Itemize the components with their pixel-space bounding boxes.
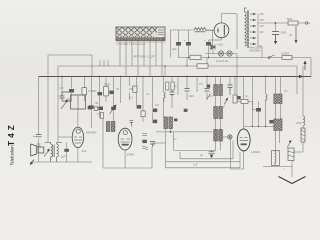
wire: tube2 bottom lead: [124, 150, 126, 168]
resistor top right y57: [281, 52, 292, 60]
capacitor C13 blob: [61, 143, 69, 163]
small ground arrow x296: [288, 26, 298, 44]
resistor R2: [104, 87, 109, 96]
wire: wire y109.5: [252, 102, 256, 110]
wire: hanger x172: [171, 77, 173, 109]
wire: rectifier output y40: [209, 39, 222, 41]
resistor pair x166 x172: [166, 82, 175, 90]
wire: inner return y156.5: [180, 141, 233, 159]
resistor on y66 bus: [197, 64, 208, 68]
Telefunken T4Z label: [7, 125, 16, 166]
wire: top loop y55: [48, 54, 92, 56]
osc coil block left of V2: [106, 122, 115, 132]
wire: heater link verticals: [276, 104, 281, 120]
left chassis arrow: [30, 160, 34, 166]
wire: hanger x120.5: [120, 77, 122, 104]
wire: osc coil feeds: [216, 77, 221, 85]
wire: box1 bottom: [103, 167, 152, 169]
svg-text:220: 220: [260, 13, 265, 16]
wire: anode top y14: [222, 13, 237, 15]
ground arrow C11: [210, 155, 213, 159]
svg-text:~AZ1: ~AZ1: [216, 43, 224, 47]
svg-text:0,5MΩ: 0,5MΩ: [88, 89, 97, 93]
output pentode V3: [237, 129, 250, 151]
svg-text:T 4 Z: T 4 Z: [7, 125, 16, 146]
svg-text:L496D: L496D: [251, 150, 261, 154]
resistor R1: [82, 88, 87, 95]
speaker: [31, 144, 44, 156]
svg-text:+: +: [204, 39, 206, 43]
wire: right column x303: [294, 66, 304, 152]
svg-text:150: 150: [260, 19, 265, 22]
heater block upper pair: [274, 94, 282, 104]
series box x241-248: [241, 100, 248, 104]
pot arrow mid: [110, 105, 117, 115]
wire: tube3 bottom loop: [231, 140, 244, 170]
padding pot arrow: [224, 98, 228, 105]
resistor R15: [233, 95, 237, 103]
pentode V2: [118, 128, 132, 150]
wire: hanger x84.3: [83, 77, 85, 102]
wire: second bus y66: [58, 65, 297, 67]
svg-text:6,3V 0,3A: 6,3V 0,3A: [216, 59, 228, 63]
svg-text:0,2: 0,2: [173, 137, 177, 141]
wire: hanger x197: [196, 77, 198, 93]
cap blob x98: [98, 92, 103, 95]
svg-text:0,1: 0,1: [146, 92, 150, 96]
volume pot arrow left: [61, 100, 68, 110]
wire: hanger x143: [142, 77, 144, 123]
IFT1 block pair: [164, 117, 173, 129]
svg-text:110: 110: [260, 31, 265, 34]
IFT2 block pair: [214, 130, 223, 142]
svg-text:50: 50: [95, 101, 99, 105]
wire: line x38.5 cap leads: [33, 135, 36, 137]
cap blob x152: [153, 109, 158, 113]
wire: junction x275 drop: [275, 23, 277, 32]
small resistor x101: [101, 112, 104, 118]
resistor on y57.5: [190, 55, 201, 59]
wire: AF box verticals: [103, 112, 152, 168]
wire: hanger x62: [61, 77, 63, 97]
wire: anode line y126.5: [244, 126, 274, 128]
cap blob x136: [137, 105, 142, 109]
wire: filter cap 2 leads: [188, 46, 190, 58]
svg-text:5000: 5000: [281, 31, 287, 35]
wire: hanger x243.7 top: [243, 77, 245, 130]
wire: hanger x178: [177, 77, 179, 96]
svg-text:l 2 3 4 5 6 7 8 9 10 11 12: l 2 3 4 5 6 7 8 9 10 11 12: [117, 42, 146, 46]
cap blob row B 1: [89, 105, 94, 109]
field resistor x303: [301, 128, 305, 142]
wire: right vertical x297: [296, 66, 298, 94]
mains transformer core: [247, 10, 249, 48]
band switch coil block: [116, 27, 165, 46]
dial lamp 1: [218, 51, 223, 56]
wire: stub ticks x100-108: [100, 60, 108, 66]
wire: filter cap 1 leads: [178, 46, 180, 58]
wire: lamp line y53.5: [205, 53, 237, 55]
rectifier tube AZ1: [205, 23, 229, 40]
capacitor C4: [60, 92, 72, 101]
capacitor C9: [205, 89, 210, 92]
svg-text:0,1: 0,1: [245, 94, 249, 98]
cap blob row B 2: [98, 107, 103, 111]
svg-text:2μ: 2μ: [173, 84, 177, 88]
svg-text:0,3: 0,3: [97, 112, 101, 116]
svg-text:2000: 2000: [295, 121, 302, 125]
mains transformer primary winding: [245, 8, 248, 46]
cap 0.1 left: [60, 86, 75, 93]
driver transformer box: [71, 95, 86, 109]
wire: hanger x265 aircoil: [265, 77, 267, 127]
svg-text:Ant-Wk s. μF: Ant-Wk s. μF: [133, 55, 156, 59]
air coil x163: [164, 92, 166, 102]
wire: mid vertical x165 long: [164, 66, 166, 77]
svg-text:100: 100: [189, 94, 194, 98]
speaker pot arrow: [44, 149, 50, 157]
cap on x38.5: [36, 135, 42, 147]
wire: hanger x129.4: [128, 77, 130, 101]
svg-text:E446: E446: [127, 153, 134, 157]
triode V1: [72, 127, 83, 147]
wire: tube1 bottom lead: [77, 148, 79, 163]
svg-text:μF: μF: [200, 153, 204, 157]
mains capacitor: [272, 31, 287, 35]
svg-text:REN904: REN904: [86, 131, 97, 135]
heater block lower pair: [274, 119, 282, 131]
wire: vertical x237 heater run: [236, 14, 238, 102]
wire: IFT2 to grid cap: [222, 136, 228, 138]
cap blob x207: [207, 85, 210, 88]
filter capacitor C2: [184, 39, 191, 46]
svg-text:1μF: 1μF: [193, 163, 198, 167]
wire: hanger x136.6: [136, 77, 138, 106]
big ground chevron: [279, 177, 306, 184]
svg-text:+: +: [184, 39, 186, 43]
cap blob right of V2: [142, 140, 147, 143]
svg-text:4μF: 4μF: [172, 47, 177, 51]
wire: hanger x106: [105, 77, 107, 102]
wire: rectified line y57.5: [178, 57, 311, 59]
wire: right edge vertical: [310, 58, 312, 77]
cap blob x152 low: [153, 120, 158, 124]
wire: vertical x92: [91, 55, 93, 77]
cap blob row B 3: [111, 107, 116, 111]
wire: pot row y133: [156, 131, 213, 133]
cap blob x184: [184, 109, 188, 112]
wire: rectifier top lead: [221, 14, 223, 23]
svg-text:μF: μF: [288, 33, 292, 37]
wire: choke feed verticals: [170, 30, 188, 58]
wire: hanger x99.5: [99, 77, 101, 119]
mains terminal: [305, 22, 310, 24]
filter capacitor C1: [172, 42, 181, 51]
wire: hanger x207: [206, 58, 208, 101]
wire: switch block drops: [120, 40, 162, 77]
grid cap V3: [228, 135, 232, 139]
hatch marks right of V2: [142, 146, 148, 150]
mains plug arrow: [303, 61, 306, 71]
switch on y57: [268, 55, 275, 59]
cap blob x174: [174, 119, 178, 122]
wire: coil frame bottom: [263, 166, 292, 168]
wire: hanger x113.5: [113, 77, 115, 123]
wire: heater drops: [276, 77, 281, 95]
wire: series wire y101.5: [237, 101, 252, 103]
wire: hanger x152.6: [152, 77, 154, 120]
transformer tap labels: [260, 13, 265, 34]
cap blob x238: [238, 96, 241, 99]
cap above V2: [130, 120, 133, 126]
wire: tube1 grid feed: [58, 136, 72, 138]
small box x94: [94, 107, 97, 110]
wire: hanger x168.5: [166, 129, 171, 132]
svg-text:5000: 5000: [104, 83, 111, 87]
wire: anode choke line y30: [170, 29, 214, 31]
choke loops x303: [303, 116, 305, 126]
cap blob x256: [256, 108, 261, 112]
cap pair right of box: [88, 106, 92, 110]
small diagonal tap: [207, 94, 211, 100]
svg-text:0,1: 0,1: [129, 96, 133, 100]
wire: left vertical x38.5: [38, 77, 40, 163]
cap blob x270: [269, 120, 273, 123]
wire: speaker bottom line: [31, 161, 92, 163]
wire: hanger x91.5: [91, 77, 93, 129]
svg-text:40-100Hz: 40-100Hz: [250, 50, 262, 53]
svg-text:125: 125: [260, 25, 265, 28]
svg-text:4V: 4V: [284, 89, 287, 93]
svg-text:Telefunken: Telefunken: [9, 145, 14, 166]
wire: grid row y142.5: [174, 132, 221, 151]
wire: cap161 lead: [153, 142, 165, 144]
wire: hanger x258.5: [258, 102, 260, 127]
capacitor C7: [170, 90, 175, 97]
wire: filter cap 3 leads: [208, 40, 210, 58]
wire: bottom nested rect: [166, 132, 241, 168]
wire: hanger x252.4: [251, 77, 253, 127]
wire: hanger x230 x235: [230, 77, 235, 96]
capacitor C10: [228, 85, 233, 95]
wire: hanger x187: [186, 58, 188, 101]
svg-text:50Ω: 50Ω: [287, 17, 292, 21]
wire: left vertical x48: [47, 55, 49, 143]
svg-text:914: 914: [82, 149, 87, 153]
metal rectifier diode: [211, 31, 215, 54]
svg-text:0,5: 0,5: [60, 86, 64, 90]
small box x141: [141, 111, 145, 117]
osc section box: [129, 86, 137, 92]
wire: hanger x71.5: [71, 77, 73, 102]
HF choke coil: [194, 28, 206, 32]
wire: mains line y23: [268, 22, 305, 24]
svg-text:1000Ω: 1000Ω: [281, 52, 289, 56]
oscillator coil pair 1: [214, 85, 223, 96]
svg-text:0,5: 0,5: [199, 82, 203, 86]
cap blob x110: [109, 91, 114, 95]
ground arrow below cap: [274, 35, 277, 45]
filter capacitor C3: [204, 39, 211, 46]
capacitor C12: [150, 142, 155, 148]
var resistor box: [287, 140, 294, 161]
dial lamp 2: [227, 51, 232, 56]
caps right of V2: [142, 134, 147, 136]
coupling capacitor C11: [200, 151, 215, 158]
mains resistor y23: [287, 17, 298, 25]
wire: osc pair links: [216, 96, 221, 130]
scattered value labels: [65, 82, 302, 171]
wire: choke top lead: [276, 131, 280, 151]
capacitor C8: [185, 89, 190, 92]
wire: main HT bus: [39, 76, 312, 78]
mains transformer taps: [250, 13, 256, 45]
wire: var res shaft: [291, 161, 293, 178]
wire: tube1 top lead: [77, 109, 79, 128]
junction dots on buses: [61, 57, 266, 127]
wire: left vertical x58: [57, 66, 59, 143]
wire: secondary to y57: [258, 46, 262, 58]
oscillator coil pair 2: [214, 107, 223, 119]
output transformer: [45, 143, 63, 163]
mains junction dot: [275, 22, 277, 24]
svg-text:5μF: 5μF: [61, 155, 66, 159]
bus end arrow: [299, 75, 304, 78]
wire: xfrm tap bus: [258, 14, 268, 46]
output choke in frame: [272, 151, 280, 166]
air coil x265: [266, 94, 268, 102]
wire: hanger x163.5 coil feed: [163, 77, 165, 118]
junction dot detector: [170, 131, 172, 133]
